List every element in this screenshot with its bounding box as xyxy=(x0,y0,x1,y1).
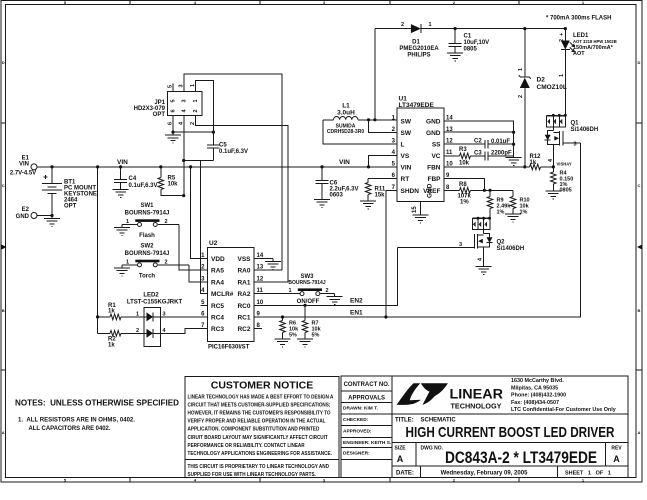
svg-text:5: 5 xyxy=(171,99,177,102)
svg-text:TECHNOLOGY: TECHNOLOGY xyxy=(451,404,502,411)
svg-text:5%: 5% xyxy=(312,333,320,339)
svg-text:CONTRACT NO.: CONTRACT NO. xyxy=(344,382,390,388)
terminal E1 xyxy=(10,156,37,177)
svg-text:0.1uF,6.3V: 0.1uF,6.3V xyxy=(129,183,158,189)
svg-text:VSS: VSS xyxy=(237,256,251,263)
svg-text:PERFORMANCE OR RELIABILITY. C: PERFORMANCE OR RELIABILITY. CONTACT LINE… xyxy=(188,443,306,449)
node VIN rail xyxy=(52,166,397,168)
terminal E2 xyxy=(16,207,37,220)
svg-text:0805: 0805 xyxy=(464,47,478,53)
zone numbers bottom xyxy=(64,478,585,483)
svg-text:CDRH5D28-3R0: CDRH5D28-3R0 xyxy=(327,129,364,135)
svg-text:Q2: Q2 xyxy=(497,240,506,246)
LED LED2 xyxy=(127,293,183,347)
fold arrow right xyxy=(637,245,642,250)
svg-text:BOURNS-7914J: BOURNS-7914J xyxy=(288,280,325,286)
svg-text:1: 1 xyxy=(126,259,129,265)
svg-text:LINEAR: LINEAR xyxy=(450,387,504,402)
svg-text:DATE:: DATE: xyxy=(396,471,414,477)
svg-text:A: A xyxy=(638,430,641,435)
svg-text:VDD: VDD xyxy=(211,256,225,263)
date row xyxy=(392,466,628,478)
svg-text:B: B xyxy=(638,308,641,313)
diode D1 xyxy=(375,22,565,59)
pin 15 ground stub of U1 xyxy=(420,202,422,212)
svg-text:C5: C5 xyxy=(219,143,227,149)
wire FBN row xyxy=(444,166,530,168)
svg-text:C: C xyxy=(2,183,5,188)
svg-text:1: 1 xyxy=(429,22,432,28)
svg-text:2200pF: 2200pF xyxy=(491,151,512,157)
svg-text:HOWEVER, IT REMAINS THE CUSTOM: HOWEVER, IT REMAINS THE CUSTOMER'S RESPO… xyxy=(188,410,331,416)
svg-text:2: 2 xyxy=(165,259,168,265)
resistor R8 xyxy=(444,182,513,206)
svg-text:RC0: RC0 xyxy=(237,303,250,310)
svg-text:0.01uF: 0.01uF xyxy=(491,139,510,145)
svg-text:C: C xyxy=(638,183,641,188)
JP1 outer pin labels xyxy=(168,84,196,125)
svg-text:Si1406DH: Si1406DH xyxy=(571,127,599,133)
wire FBP to VREF row xyxy=(444,179,484,191)
capacitor C2 xyxy=(444,139,514,149)
svg-text:L: L xyxy=(401,142,405,149)
svg-text:SS: SS xyxy=(432,142,441,149)
zone ticks right xyxy=(636,123,642,370)
svg-text:B: B xyxy=(2,308,5,313)
wire RA0 stub xyxy=(254,269,282,271)
svg-text:1630 McCarthy Blvd.: 1630 McCarthy Blvd. xyxy=(511,378,564,384)
svg-text:APPROVED:: APPROVED: xyxy=(343,429,372,435)
svg-text:Fax: (408)434-0507: Fax: (408)434-0507 xyxy=(511,400,559,406)
wire VS jog to VIN rail xyxy=(369,156,398,167)
svg-text:RA5: RA5 xyxy=(211,268,224,275)
resistor R9 xyxy=(487,190,511,218)
zone ticks bottom xyxy=(130,478,519,483)
op-amp U1 LT3479EDE xyxy=(392,96,454,202)
ground at SW1 xyxy=(114,225,130,236)
svg-text:LTC Confidential-For Customer: LTC Confidential-For Customer Use Only xyxy=(511,407,616,413)
address block xyxy=(511,378,616,413)
wire JP1 pin5 stub xyxy=(172,84,174,92)
wire LED2 pin4 to RC3 xyxy=(153,329,208,334)
svg-text:1: 1 xyxy=(193,99,199,102)
svg-text:1%: 1% xyxy=(497,210,505,216)
svg-text:SHEET 1 OF 1: SHEET 1 OF 1 xyxy=(565,471,611,477)
svg-text:VIN: VIN xyxy=(401,164,412,171)
svg-text:FBP: FBP xyxy=(428,176,442,183)
svg-text:BOURNS-7914J: BOURNS-7914J xyxy=(125,211,170,217)
svg-text:RC3: RC3 xyxy=(211,326,224,333)
ground below C4 xyxy=(113,187,129,198)
svg-text:SUPPLIED FOR USE WITH LINEAR T: SUPPLIED FOR USE WITH LINEAR TECHNOLOGY … xyxy=(188,472,317,478)
title row xyxy=(392,413,628,415)
switch SW2 xyxy=(122,244,189,280)
svg-text:2: 2 xyxy=(559,39,565,42)
svg-text:Milpitas, CA 95035: Milpitas, CA 95035 xyxy=(511,385,558,391)
svg-text:10k: 10k xyxy=(168,182,179,188)
svg-text:Phone: (408)432-1900: Phone: (408)432-1900 xyxy=(511,393,566,399)
svg-text:3: 3 xyxy=(574,142,577,148)
svg-text:1: 1 xyxy=(289,288,292,294)
wire MCLR riser to U2 xyxy=(200,161,207,294)
svg-text:1: 1 xyxy=(559,74,565,77)
wire SW3 pin2 to ground xyxy=(320,293,335,295)
wire E1 to VIN rail xyxy=(37,166,52,168)
svg-text:VIN: VIN xyxy=(117,159,128,166)
resistor R11 xyxy=(365,179,385,199)
ground at C6 xyxy=(314,197,330,208)
svg-text:2: 2 xyxy=(136,328,139,334)
wire JP1 pin3 to RA0 riser xyxy=(184,74,282,270)
svg-text:REV: REV xyxy=(611,446,622,452)
svg-text:SW: SW xyxy=(401,130,412,137)
ground at JP1 pin6 xyxy=(165,132,181,143)
svg-text:RA1: RA1 xyxy=(237,279,250,286)
PIC U2 xyxy=(201,240,264,351)
fold arrow left xyxy=(2,245,7,250)
resistor R2 xyxy=(98,331,147,349)
svg-text:OPT: OPT xyxy=(153,112,166,118)
ground at R11 xyxy=(360,198,376,209)
svg-text:1%: 1% xyxy=(460,200,469,206)
wire VSS to ground xyxy=(254,258,273,260)
resistor R10 xyxy=(510,190,529,215)
ground at VSS xyxy=(265,259,281,270)
svg-text:RC5: RC5 xyxy=(211,303,224,310)
wire RA1 stub xyxy=(254,281,288,283)
approvals column lines xyxy=(341,376,392,478)
svg-text:HIGH CURRENT BOOST LED DRIVER: HIGH CURRENT BOOST LED DRIVER xyxy=(406,424,615,441)
svg-text:GND: GND xyxy=(427,183,434,198)
svg-text:RC4: RC4 xyxy=(211,315,224,322)
svg-text:SW1: SW1 xyxy=(140,203,154,209)
svg-text:RC2: RC2 xyxy=(237,326,250,333)
wire RC5 stub xyxy=(201,304,208,306)
svg-text:LT3479EDE: LT3479EDE xyxy=(399,102,435,109)
connector JP1 xyxy=(134,92,202,118)
svg-text:15k: 15k xyxy=(375,193,386,199)
svg-text:SW: SW xyxy=(401,118,412,125)
svg-text:DESIGNER:: DESIGNER: xyxy=(343,451,370,457)
svg-text:A: A xyxy=(397,454,404,464)
svg-text:EN2: EN2 xyxy=(350,298,363,305)
svg-text:CIRCUIT THAT MEETS CUSTOMER-SU: CIRCUIT THAT MEETS CUSTOMER-SUPPLIED SPE… xyxy=(188,402,331,408)
svg-text:CMOZ10L: CMOZ10L xyxy=(537,84,567,91)
svg-text:R3: R3 xyxy=(459,147,467,153)
svg-text:NOTES: UNLESS OTHERWISE SPECI: NOTES: UNLESS OTHERWISE SPECIFIED xyxy=(15,398,179,408)
svg-text:RT: RT xyxy=(401,176,410,183)
svg-text:1: 1 xyxy=(126,219,129,225)
svg-text:KIM T.: KIM T. xyxy=(364,406,378,412)
svg-text:AOT: AOT xyxy=(573,51,585,57)
svg-text:0603: 0603 xyxy=(330,193,344,199)
wire RC2 stub xyxy=(254,328,262,330)
svg-text:1: 1 xyxy=(136,311,139,317)
wire SW node riser to D1 xyxy=(374,29,376,120)
ground at R4 xyxy=(545,188,561,199)
svg-text:OPT: OPT xyxy=(64,204,77,210)
svg-text:VC: VC xyxy=(431,153,440,160)
svg-text:DWG NO.: DWG NO. xyxy=(421,446,444,452)
svg-text:1k: 1k xyxy=(108,309,115,315)
svg-text:3: 3 xyxy=(459,242,462,248)
wire LED2 pin3 to RC4 xyxy=(153,316,208,318)
svg-text:ENGINEER: KEITH S.: ENGINEER: KEITH S. xyxy=(343,440,391,446)
svg-text:C2: C2 xyxy=(474,139,482,145)
svg-text:GND: GND xyxy=(426,118,441,125)
svg-text:A: A xyxy=(2,430,5,435)
svg-text:1: 1 xyxy=(392,115,396,121)
svg-text:VS: VS xyxy=(401,153,410,160)
ground below BT1 xyxy=(44,216,60,227)
svg-text:APPLICATION. COMPONENT SUBSTI: APPLICATION. COMPONENT SUBSTITUTION AND … xyxy=(188,427,320,433)
svg-text:FBN: FBN xyxy=(427,164,441,171)
resistor R5 xyxy=(158,167,184,196)
resistor R1 xyxy=(98,303,147,320)
svg-text:LINEAR TECHNOLOGY HAS MADE A B: LINEAR TECHNOLOGY HAS MADE A BEST EFFORT… xyxy=(188,394,334,400)
svg-text:2: 2 xyxy=(518,95,524,98)
svg-text:10uF,10V: 10uF,10V xyxy=(464,40,490,46)
ground at R10 xyxy=(505,211,521,222)
svg-text:VISHAY: VISHAY xyxy=(557,162,572,167)
zone ticks left xyxy=(1,123,6,370)
switch SW1 xyxy=(122,203,179,239)
svg-text:BOURNS-7914J: BOURNS-7914J xyxy=(125,251,170,257)
svg-text:R8: R8 xyxy=(459,182,467,188)
ground at C2/C3 xyxy=(506,155,522,166)
svg-text:CUSTOMER NOTICE: CUSTOMER NOTICE xyxy=(211,380,313,392)
resistor R6 xyxy=(280,317,299,339)
resistor R4 xyxy=(551,162,574,194)
svg-text:DRAWN:: DRAWN: xyxy=(343,406,363,412)
svg-text:3.0uH: 3.0uH xyxy=(337,110,355,117)
svg-text:D: D xyxy=(2,60,5,65)
svg-text:Flash: Flash xyxy=(139,233,155,239)
svg-text:6: 6 xyxy=(171,109,177,112)
ground at SW3 xyxy=(327,294,343,305)
svg-text:D: D xyxy=(638,60,641,65)
svg-text:1k: 1k xyxy=(530,160,537,166)
ground at R6 xyxy=(275,336,291,347)
svg-text:2: 2 xyxy=(193,109,199,112)
zener D2 xyxy=(518,29,567,167)
svg-text:EN1: EN1 xyxy=(350,310,363,317)
svg-text:MCLR#: MCLR# xyxy=(211,291,234,298)
svg-text:SCHEMATIC: SCHEMATIC xyxy=(421,418,457,424)
svg-text:ALL CAPACITORS ARE 0402.: ALL CAPACITORS ARE 0402. xyxy=(29,425,111,432)
inductor L1 xyxy=(323,103,397,136)
zone letters left xyxy=(2,60,5,435)
svg-text:0.1uF,6.3V: 0.1uF,6.3V xyxy=(219,149,248,155)
node EN1 wire xyxy=(254,143,581,317)
svg-text:C3: C3 xyxy=(474,151,482,157)
wire JP1 pin4 down xyxy=(183,116,185,196)
wire riser to R1/R2 xyxy=(97,167,99,333)
svg-text:2.7V-4.5V: 2.7V-4.5V xyxy=(10,171,36,177)
svg-text:5%: 5% xyxy=(289,333,297,339)
svg-text:1: 1 xyxy=(518,68,524,71)
resistor R7 xyxy=(302,305,321,338)
svg-text:U2: U2 xyxy=(209,240,218,247)
svg-text:DC843A-2 * LT3479EDE: DC843A-2 * LT3479EDE xyxy=(445,449,597,467)
wire riser to U2 VDD xyxy=(191,167,208,259)
transistor Q2 Si1406DH xyxy=(398,217,525,264)
svg-text:10k: 10k xyxy=(459,161,470,167)
resistor R3 xyxy=(444,147,485,167)
svg-text:C4: C4 xyxy=(129,176,137,182)
wire JP1 pin6 to ground tie xyxy=(173,116,213,133)
svg-text:A: A xyxy=(613,454,620,464)
svg-text:LED2: LED2 xyxy=(143,293,159,299)
ground at U1 pin15 xyxy=(413,212,429,223)
capacitor C4 xyxy=(114,167,158,189)
svg-text:CHECKED:: CHECKED: xyxy=(343,417,369,423)
svg-text:Q1: Q1 xyxy=(571,121,580,127)
svg-text:RA0: RA0 xyxy=(237,268,250,275)
capacitor C5 xyxy=(207,132,248,160)
svg-text:PIC16F630I/ST: PIC16F630I/ST xyxy=(208,345,250,351)
ground at Q2 xyxy=(476,264,492,275)
svg-text:SW2: SW2 xyxy=(140,244,154,250)
svg-text:C1: C1 xyxy=(464,34,472,40)
svg-text:Si1406DH: Si1406DH xyxy=(497,246,525,252)
wire SW2 to U2 RA4 xyxy=(189,265,208,282)
svg-text:PHILIPS: PHILIPS xyxy=(407,53,430,59)
svg-text:4: 4 xyxy=(182,109,188,113)
svg-text:CIRUIT BOARD LAYOUT MAY SIGNIF: CIRUIT BOARD LAYOUT MAY SIGNIFICANTLY AF… xyxy=(188,435,328,441)
svg-text:2: 2 xyxy=(165,219,168,225)
svg-text:1. ALL RESISTORS ARE IN OHMS,: 1. ALL RESISTORS ARE IN OHMS, 0402. xyxy=(18,417,135,424)
wire GND pin14 to pin13 xyxy=(444,121,514,132)
svg-text:VIN: VIN xyxy=(339,159,350,166)
wire SW1 to U2 RA5 xyxy=(179,225,208,271)
svg-text:11: 11 xyxy=(446,150,453,156)
ground at R7 xyxy=(297,336,313,347)
svg-text:GND: GND xyxy=(16,214,30,220)
wire RA2 to SW3 xyxy=(254,293,300,295)
wire JP1 pin1 to C5 top xyxy=(195,81,213,132)
svg-text:Torch: Torch xyxy=(139,274,156,280)
svg-text:TECHNOLOGY APPLICATIONS ENGINE: TECHNOLOGY APPLICATIONS ENGINEERING FOR … xyxy=(188,451,333,457)
svg-text:THIS CIRCUIT IS PROPRIETARY TO: THIS CIRCUIT IS PROPRIETARY TO LINEAR TE… xyxy=(188,464,330,470)
ground at C1 xyxy=(447,50,463,61)
LED LED1 xyxy=(559,29,617,116)
wire RT pin xyxy=(368,178,397,180)
wire gnd riser C2C3 xyxy=(513,132,515,156)
svg-text:15: 15 xyxy=(412,206,418,213)
transistor Q1 Si1406DH xyxy=(545,114,598,167)
capacitor C3 xyxy=(474,151,514,161)
svg-text:* 700mA 300ms FLASH: * 700mA 300ms FLASH xyxy=(546,16,611,22)
battery BT1 xyxy=(42,167,97,216)
svg-text:1%: 1% xyxy=(520,210,528,216)
svg-text:PMEG2010EA: PMEG2010EA xyxy=(399,46,439,52)
svg-text:E2: E2 xyxy=(22,207,30,213)
size/dwg row xyxy=(392,443,628,466)
wire SHDN to EN1 xyxy=(386,190,397,317)
svg-text:4: 4 xyxy=(478,257,484,261)
wire L1 left loop to L pin xyxy=(323,120,397,144)
svg-text:+: + xyxy=(559,33,565,36)
svg-text:2: 2 xyxy=(401,22,404,28)
wire C5 line stub to JP1 pin4 line xyxy=(184,160,214,162)
wire SW pin2 tie xyxy=(369,120,398,133)
svg-text:Wednesday, February 09, 2005: Wednesday, February 09, 2005 xyxy=(441,471,528,477)
svg-text:D2: D2 xyxy=(537,77,546,84)
resistor R12 xyxy=(530,154,554,170)
svg-text:1k: 1k xyxy=(108,343,115,349)
svg-text:VERIFY PROPER AND RELIABLE OPE: VERIFY PROPER AND RELIABLE OPERATION IN … xyxy=(188,418,326,424)
ground at SW2 xyxy=(114,265,130,276)
svg-text:0805: 0805 xyxy=(560,188,572,194)
svg-text:SIZE: SIZE xyxy=(395,446,407,452)
zone numbers top xyxy=(64,0,585,5)
wire JP1 pin2 to RA1 riser xyxy=(195,116,287,282)
svg-text:ON/OFF: ON/OFF xyxy=(297,299,320,305)
switch SW3 xyxy=(288,274,328,305)
capacitor C6 xyxy=(316,167,359,199)
svg-text:VIN: VIN xyxy=(19,162,29,168)
svg-text:APPROVALS: APPROVALS xyxy=(348,396,385,402)
svg-text:LTST-C155KGJRKT: LTST-C155KGJRKT xyxy=(127,300,183,306)
svg-text:SHDN: SHDN xyxy=(401,188,420,195)
wire E2 to battery foot xyxy=(37,215,52,217)
capacitor C1 xyxy=(449,29,490,53)
svg-text:RA2: RA2 xyxy=(237,291,250,298)
svg-text:TITLE:: TITLE: xyxy=(395,418,414,424)
node EN2 wire xyxy=(254,247,398,305)
svg-text:GND: GND xyxy=(426,130,441,137)
svg-text:L1: L1 xyxy=(342,103,350,110)
wire GND pin13 xyxy=(444,131,514,133)
svg-text:AOT 3218 HPW 1502B: AOT 3218 HPW 1502B xyxy=(573,39,617,44)
svg-text:D1: D1 xyxy=(412,40,420,46)
svg-text:RA4: RA4 xyxy=(211,279,224,286)
svg-text:3: 3 xyxy=(182,99,188,102)
logo Linear Technology xyxy=(397,383,421,405)
svg-text:RC1: RC1 xyxy=(237,315,250,322)
zone ticks top xyxy=(130,1,519,5)
zone letters right xyxy=(638,60,641,435)
